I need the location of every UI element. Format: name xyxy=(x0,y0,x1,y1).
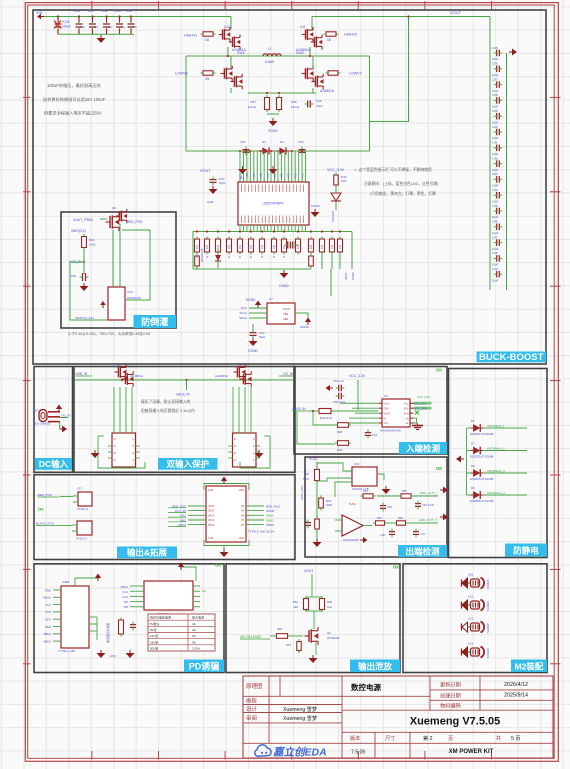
svg-text:<- 这个是蓝色指示灯 可以不焊接，不影响使用: <- 这个是蓝色指示灯 可以不焊接，不影响使用 xyxy=(354,167,432,172)
svg-text:10k: 10k xyxy=(238,244,242,249)
svg-text:2N7002W: 2N7002W xyxy=(327,636,340,640)
svg-text:R55: R55 xyxy=(402,489,407,493)
svg-text:D6: D6 xyxy=(471,419,475,423)
svg-text:XM POWER KIT: XM POWER KIT xyxy=(449,749,494,755)
svg-text:VBUS: VBUS xyxy=(208,525,215,527)
svg-text:10k: 10k xyxy=(195,244,199,249)
svg-text:VCC_3.3V: VCC_3.3V xyxy=(327,168,345,172)
svg-text:2026/4/12: 2026/4/12 xyxy=(504,682,528,688)
svg-text:0Ω: 0Ω xyxy=(205,38,210,42)
svg-text:尺寸: 尺寸 xyxy=(385,734,395,742)
svg-text:审阅: 审阅 xyxy=(246,714,257,722)
svg-text:R: R xyxy=(206,256,208,259)
svg-text:C70: C70 xyxy=(420,532,425,536)
svg-text:AO4801A: AO4801A xyxy=(130,374,143,378)
svg-text:VOUT: VOUT xyxy=(450,10,462,15)
svg-text:C66: C66 xyxy=(387,505,392,509)
svg-text:SW1: SW1 xyxy=(237,51,245,55)
svg-text:防倒灌: 防倒灌 xyxy=(141,316,168,327)
svg-text:输出&拓展: 输出&拓展 xyxy=(127,548,168,558)
svg-text:OK: OK xyxy=(436,368,442,373)
svg-text:SW2: SW2 xyxy=(296,51,304,55)
svg-text:15V定: 15V定 xyxy=(150,639,158,644)
svg-text:VB: VB xyxy=(241,520,245,522)
svg-text:5mΩ: 5mΩ xyxy=(303,477,309,481)
svg-text:C31: C31 xyxy=(88,9,94,13)
svg-text:10uF: 10uF xyxy=(492,231,499,235)
svg-text:输出泄放: 输出泄放 xyxy=(358,661,393,671)
svg-text:ANTENNA_4: ANTENNA_4 xyxy=(487,491,505,495)
svg-text:G: G xyxy=(253,439,255,441)
svg-text:3.25A: 3.25A xyxy=(192,646,200,650)
svg-text:10k: 10k xyxy=(309,244,313,249)
svg-text:U11: U11 xyxy=(300,25,306,29)
svg-text:10uF: 10uF xyxy=(492,215,499,219)
svg-text:G: G xyxy=(132,446,134,448)
svg-text:3A: 3A xyxy=(192,628,196,632)
svg-text:R44 2mΩ: R44 2mΩ xyxy=(320,416,332,420)
svg-text:R45: R45 xyxy=(337,448,343,452)
svg-text:10uF: 10uF xyxy=(492,136,499,140)
svg-text:VER: VER xyxy=(283,317,288,321)
svg-text:U20: U20 xyxy=(468,573,474,577)
svg-text:2025/9/14: 2025/9/14 xyxy=(504,693,528,699)
svg-text:U21: U21 xyxy=(468,595,474,599)
svg-text:LOWV2: LOWV2 xyxy=(349,72,362,76)
svg-text:HIGHV1: HIGHV1 xyxy=(184,34,197,38)
svg-text:IN: IN xyxy=(114,439,117,441)
svg-text:画板: 画板 xyxy=(246,697,258,705)
svg-text:TYPE-C 16P QC24: TYPE-C 16P QC24 xyxy=(248,530,274,534)
svg-text:R: R xyxy=(239,256,241,259)
svg-text:入端检测: 入端检测 xyxy=(405,443,441,453)
svg-text:IN: IN xyxy=(234,446,237,448)
svg-text:GND: GND xyxy=(208,538,213,540)
svg-text:VCC: VCC xyxy=(253,173,256,178)
svg-text:R37: R37 xyxy=(250,100,256,104)
svg-text:物料编码: 物料编码 xyxy=(440,702,461,710)
svg-text:10uF: 10uF xyxy=(492,105,499,109)
svg-text:C42: C42 xyxy=(492,156,498,160)
svg-text:20V定: 20V定 xyxy=(150,645,158,650)
svg-text:SDA: SDA xyxy=(404,407,409,410)
svg-text:C30: C30 xyxy=(74,9,80,13)
svg-text:CC1: CC1 xyxy=(122,590,128,594)
svg-text:R65: R65 xyxy=(277,627,283,631)
svg-text:R49: R49 xyxy=(304,472,310,476)
svg-text:出端检测: 出端检测 xyxy=(405,546,440,556)
svg-text:C34: C34 xyxy=(126,9,132,13)
svg-text:56pF: 56pF xyxy=(219,181,226,185)
svg-text:C33: C33 xyxy=(115,9,121,13)
svg-text:10uF: 10uF xyxy=(492,73,499,77)
svg-text:C53: C53 xyxy=(240,140,246,144)
svg-text:VBA: VBA xyxy=(283,312,288,316)
svg-text:10uF: 10uF xyxy=(492,152,499,156)
svg-text:30kΩ: 30kΩ xyxy=(326,503,332,507)
svg-text:DM: DM xyxy=(124,605,129,609)
svg-text:GND: GND xyxy=(384,407,390,410)
svg-text:USB1: USB1 xyxy=(62,580,70,584)
svg-text:10uF: 10uF xyxy=(492,247,499,251)
svg-text:SCREW: SCREW xyxy=(486,648,490,658)
svg-text:0Ω: 0Ω xyxy=(205,77,210,81)
svg-text:VCC: VCC xyxy=(274,173,277,178)
svg-text:C61: C61 xyxy=(372,433,378,437)
svg-text:VCC: VCC xyxy=(267,173,270,178)
svg-text:U23: U23 xyxy=(468,642,474,646)
svg-text:10uF: 10uF xyxy=(492,168,499,172)
svg-text:ADC_SDA: ADC_SDA xyxy=(414,406,427,410)
svg-text:PG: PG xyxy=(202,589,206,593)
svg-text:47pF: 47pF xyxy=(316,104,323,108)
svg-text:VBUS_IN: VBUS_IN xyxy=(292,407,306,411)
svg-text:VOUT: VOUT xyxy=(309,457,318,461)
svg-text:10k: 10k xyxy=(272,244,276,249)
svg-text:3A: 3A xyxy=(192,640,196,644)
svg-text:DM1: DM1 xyxy=(45,625,51,629)
svg-text:VOUT: VOUT xyxy=(344,272,348,280)
svg-text:G: G xyxy=(132,439,134,441)
svg-text:SWITCH_INH: SWITCH_INH xyxy=(75,316,94,320)
svg-text:10k: 10k xyxy=(227,244,231,249)
svg-text:G: G xyxy=(253,446,255,448)
svg-text:4A: 4A xyxy=(192,622,196,626)
svg-text:VIN-: VIN- xyxy=(384,422,389,425)
svg-text:6.8uH: 6.8uH xyxy=(265,60,275,64)
svg-text:DP: DP xyxy=(124,600,128,604)
svg-text:VCC: VCC xyxy=(241,306,248,310)
svg-text:U4: U4 xyxy=(384,394,388,398)
svg-text:C40: C40 xyxy=(492,125,498,129)
svg-text:BLACK_POS: BLACK_POS xyxy=(36,522,54,526)
svg-text:RED_POS: RED_POS xyxy=(38,493,52,497)
svg-text:设计: 设计 xyxy=(246,705,258,713)
svg-text:C47: C47 xyxy=(492,235,498,239)
svg-text:第 2: 第 2 xyxy=(423,734,433,742)
svg-text:U16: U16 xyxy=(354,462,360,466)
svg-text:10uF: 10uF xyxy=(492,184,499,188)
svg-text:SCL: SCL xyxy=(404,403,409,406)
svg-text:共: 共 xyxy=(496,734,501,742)
svg-text:ANTENNA_3: ANTENNA_3 xyxy=(487,469,505,473)
svg-text:G: G xyxy=(132,460,134,462)
svg-text:R: R xyxy=(217,256,219,259)
svg-text:SBU2: SBU2 xyxy=(266,518,274,522)
svg-text:C45: C45 xyxy=(492,204,498,208)
svg-text:VBUS: VBUS xyxy=(208,520,215,522)
svg-text:SCREW: SCREW xyxy=(486,579,490,589)
svg-text:LM5176PWPR: LM5176PWPR xyxy=(262,202,284,206)
svg-text:9V定: 9V定 xyxy=(150,627,157,632)
svg-text:IN-: IN- xyxy=(384,417,387,420)
svg-text:U3: U3 xyxy=(238,363,242,367)
svg-text:100uF的电压，最好耐高压的: 100uF的电压，最好耐高压的 xyxy=(47,82,101,89)
svg-text:VCC: VCC xyxy=(260,173,263,178)
svg-text:C36: C36 xyxy=(316,99,322,103)
svg-text:10u: 10u xyxy=(121,25,126,29)
svg-text:小于0.3A(1Ω-3Ω)，75Ω=75V，大功率低0.45: 小于0.3A(1Ω-3Ω)，75Ω=75V，大功率低0.45至0.6A xyxy=(68,331,151,336)
svg-text:D7: D7 xyxy=(471,442,475,446)
svg-text:页: 页 xyxy=(448,735,453,742)
svg-text:C41: C41 xyxy=(492,141,498,145)
svg-text:SDA2: SDA2 xyxy=(239,316,247,320)
svg-text:XT1: XT1 xyxy=(77,487,83,491)
svg-text:VBUS: VBUS xyxy=(120,585,128,589)
svg-text:10uF: 10uF xyxy=(492,263,499,267)
svg-text:GND: GND xyxy=(110,654,116,658)
svg-text:GND: GND xyxy=(239,490,244,492)
svg-text:10k: 10k xyxy=(249,244,253,249)
svg-text:VSNS: VSNS xyxy=(351,272,355,280)
svg-text:更新日期: 更新日期 xyxy=(440,681,461,689)
svg-text:10u: 10u xyxy=(133,25,138,29)
svg-text:VCC: VCC xyxy=(288,173,291,178)
svg-text:ESD5Z5.0T1G/MB: ESD5Z5.0T1G/MB xyxy=(470,477,493,481)
svg-text:GND: GND xyxy=(45,588,51,592)
svg-text:VBAT(3.3): VBAT(3.3) xyxy=(71,229,86,233)
svg-text:EGND: EGND xyxy=(268,129,278,133)
svg-text:D9: D9 xyxy=(471,486,475,490)
svg-text:ADC_SCL: ADC_SCL xyxy=(414,401,427,405)
svg-text:10u: 10u xyxy=(94,25,99,29)
svg-text:10kΩ: 10kΩ xyxy=(89,243,96,247)
svg-text:SBU1: SBU1 xyxy=(266,514,274,518)
svg-text:R48: R48 xyxy=(337,430,343,434)
svg-text:OK: OK xyxy=(38,507,44,512)
svg-text:嘉立创EDA: 嘉立创EDA xyxy=(272,746,327,759)
svg-text:VBUS: VBUS xyxy=(384,412,391,415)
svg-text:R50: R50 xyxy=(326,499,332,503)
svg-text:VOUT: VOUT xyxy=(304,569,313,573)
svg-text:VOUT: VOUT xyxy=(283,307,291,311)
svg-text:SBU2: SBU2 xyxy=(43,639,51,643)
svg-text:10u: 10u xyxy=(81,25,86,29)
svg-text:OK: OK xyxy=(436,466,442,471)
svg-text:协议与电压电流: 协议与电压电流 xyxy=(150,615,171,620)
svg-text:10uF: 10uF xyxy=(492,278,499,282)
svg-text:C38: C38 xyxy=(492,93,498,97)
svg-text:U10: U10 xyxy=(224,25,230,29)
svg-text:原理图: 原理图 xyxy=(246,682,263,690)
svg-text:INA260AIDGKR: INA260AIDGKR xyxy=(380,429,401,433)
svg-text:C68: C68 xyxy=(380,533,385,537)
svg-text:DGND: DGND xyxy=(246,298,256,302)
svg-text:C35: C35 xyxy=(492,46,498,50)
svg-text:VB: VB xyxy=(241,511,245,513)
svg-text:1kΩ: 1kΩ xyxy=(327,605,332,609)
svg-text:10uF: 10uF xyxy=(492,57,499,61)
svg-text:1kΩ: 1kΩ xyxy=(293,605,298,609)
svg-text:Q4: Q4 xyxy=(327,631,331,635)
svg-text:DC-005WZD: DC-005WZD xyxy=(35,422,50,426)
svg-text:接反了没事，防止反接输入的: 接反了没事，防止反接输入的 xyxy=(141,399,191,404)
svg-text:LOWV1: LOWV1 xyxy=(175,72,188,76)
svg-text:VCC: VCC xyxy=(295,173,298,178)
svg-text:R63: R63 xyxy=(327,600,333,604)
svg-text:10uF: 10uF xyxy=(492,89,499,93)
svg-text:(只用输出，黑灰白，灯罩，黑色，灯罩: (只用输出，黑灰白，灯罩，黑色，灯罩 xyxy=(370,191,436,196)
svg-text:10k: 10k xyxy=(205,244,209,249)
svg-text:版本: 版本 xyxy=(350,734,360,742)
svg-text:*C26: *C26 xyxy=(62,20,70,24)
svg-text:但要求全程输入电压不超过60V: 但要求全程输入电压不超过60V xyxy=(44,110,102,117)
svg-text:R: R xyxy=(228,256,230,259)
svg-text:D4: D4 xyxy=(280,140,284,144)
svg-text:R: R xyxy=(196,256,198,259)
svg-text:IN: IN xyxy=(114,446,117,448)
svg-text:R53: R53 xyxy=(398,516,403,520)
svg-text:ANTENNA_1: ANTENNA_1 xyxy=(487,424,505,428)
svg-text:XT30U-1: XT30U-1 xyxy=(77,507,89,511)
svg-text:HIGHV2: HIGHV2 xyxy=(344,33,357,37)
svg-text:XT30U-2: XT30U-2 xyxy=(76,537,88,541)
svg-text:10mΩ: 10mΩ xyxy=(291,105,300,109)
svg-text:5U5A: 5U5A xyxy=(349,502,356,506)
svg-text:R52: R52 xyxy=(377,516,382,520)
svg-text:SCL2: SCL2 xyxy=(239,311,247,315)
svg-text:IN: IN xyxy=(234,453,237,455)
svg-text:VBUS: VBUS xyxy=(208,511,215,513)
svg-text:5V默认: 5V默认 xyxy=(150,621,160,626)
svg-text:R38: R38 xyxy=(291,100,297,104)
svg-text:IN: IN xyxy=(114,453,117,455)
svg-text:C59 1uF: C59 1uF xyxy=(333,379,344,383)
svg-text:10k: 10k xyxy=(216,244,220,249)
svg-text:VIN: VIN xyxy=(36,11,43,15)
svg-text:C43: C43 xyxy=(492,172,498,176)
svg-text:R: R xyxy=(250,256,252,259)
svg-text:C66: C66 xyxy=(71,274,77,278)
svg-text:PD诱骗: PD诱骗 xyxy=(189,660,220,671)
svg-text:DC_IN: DC_IN xyxy=(283,372,293,376)
svg-text:100uF: 100uF xyxy=(62,25,71,29)
svg-text:C32: C32 xyxy=(102,9,108,13)
svg-text:RED_POS: RED_POS xyxy=(127,220,142,224)
svg-text:12V定: 12V定 xyxy=(150,633,158,638)
svg-text:AO4801A: AO4801A xyxy=(215,374,228,378)
svg-text:1kΩ: 1kΩ xyxy=(341,179,347,183)
svg-text:Xuemeng V7.5.05: Xuemeng V7.5.05 xyxy=(410,716,501,728)
svg-text:R54: R54 xyxy=(363,489,368,493)
svg-text:VCC: VCC xyxy=(301,173,304,178)
svg-text:VB: VB xyxy=(241,525,245,527)
svg-text:DGND: DGND xyxy=(279,284,289,288)
svg-text:这样更好的焊接可以用16V 100uF: 这样更好的焊接可以用16V 100uF xyxy=(43,96,106,103)
svg-text:创建日期: 创建日期 xyxy=(440,692,461,700)
svg-text:GND: GND xyxy=(207,200,215,204)
svg-text:DGND: DGND xyxy=(300,325,310,329)
svg-text:10u: 10u xyxy=(108,25,113,29)
svg-text:D3: D3 xyxy=(262,140,266,144)
svg-text:56pF: 56pF xyxy=(259,335,266,339)
svg-text:Xuemeng 雪梦: Xuemeng 雪梦 xyxy=(283,706,318,713)
svg-text:R: R xyxy=(273,256,275,259)
svg-text:IN: IN xyxy=(234,439,237,441)
svg-text:C44: C44 xyxy=(492,188,498,192)
svg-text:USB_IN: USB_IN xyxy=(76,372,88,376)
svg-text:C67 2.2nF: C67 2.2nF xyxy=(422,503,435,507)
svg-text:3A: 3A xyxy=(192,634,196,638)
svg-text:10k: 10k xyxy=(260,244,264,249)
svg-text:OK: OK xyxy=(215,563,221,568)
svg-text:ADC_OUT_I: ADC_OUT_I xyxy=(420,491,437,495)
svg-text:VBUS: VBUS xyxy=(208,515,215,517)
svg-text:OK: OK xyxy=(393,565,399,570)
svg-text:10uF: 10uF xyxy=(492,120,499,124)
svg-text:MMSZ5248: MMSZ5248 xyxy=(200,248,204,262)
svg-text:VOUT: VOUT xyxy=(200,169,211,173)
svg-text:但被双输入电压要相近 0.3v以内: 但被双输入电压要相近 0.3v以内 xyxy=(141,408,195,413)
svg-text:G: G xyxy=(253,460,255,462)
svg-text:注意朝向：(上标，蓝色白色LED，红色引脚): 注意朝向：(上标，蓝色白色LED，红色引脚) xyxy=(364,181,439,186)
svg-text:0Ω: 0Ω xyxy=(327,38,332,42)
svg-text:10k: 10k xyxy=(330,244,334,249)
svg-text:RED_POS: RED_POS xyxy=(266,504,280,508)
svg-text:VOUT_PB05: VOUT_PB05 xyxy=(73,218,93,222)
svg-text:VB: VB xyxy=(241,515,245,517)
svg-text:VCC_3.3V: VCC_3.3V xyxy=(349,374,366,378)
svg-text:10k: 10k xyxy=(320,244,324,249)
svg-text:R: R xyxy=(283,256,285,259)
svg-text:BUCK-BOOST: BUCK-BOOST xyxy=(479,352,544,363)
svg-text:VCC: VCC xyxy=(246,173,249,178)
svg-text:R64: R64 xyxy=(286,643,291,647)
svg-text:DC输入: DC输入 xyxy=(39,459,69,469)
svg-text:CC1: CC1 xyxy=(45,603,51,607)
svg-text:最大电流: 最大电流 xyxy=(192,615,204,620)
svg-text:10mΩ: 10mΩ xyxy=(248,105,257,109)
svg-text:双输入保护: 双输入保护 xyxy=(166,459,209,469)
svg-text:VBUS: VBUS xyxy=(208,506,215,508)
svg-text:IN: IN xyxy=(114,460,117,462)
svg-text:DGND: DGND xyxy=(311,204,321,208)
svg-text:GND: GND xyxy=(208,490,213,492)
svg-text:ESD5Z5.0T1G/MB: ESD5Z5.0T1G/MB xyxy=(470,432,493,436)
svg-text:VBUS: VBUS xyxy=(266,523,274,527)
svg-text:SCREW: SCREW xyxy=(486,623,490,633)
svg-text:LMV321M5X: LMV321M5X xyxy=(343,538,359,542)
svg-text:DGND: DGND xyxy=(248,349,258,353)
svg-text:VOLT_FWL: VOLT_FWL xyxy=(300,485,304,500)
svg-text:DC_IN: DC_IN xyxy=(62,414,71,418)
svg-text:U2: U2 xyxy=(117,363,121,367)
svg-text:IN: IN xyxy=(234,460,237,462)
svg-text:U7: U7 xyxy=(269,297,273,301)
svg-text:ESD5Z5.0T1G/MB: ESD5Z5.0T1G/MB xyxy=(470,499,493,503)
svg-text:G: G xyxy=(132,453,134,455)
svg-text:M2装配: M2装配 xyxy=(515,661,544,671)
svg-text:SBU1: SBU1 xyxy=(43,632,51,636)
svg-text:U1: U1 xyxy=(240,176,244,180)
svg-text:ADC_OUT_V: ADC_OUT_V xyxy=(419,518,437,522)
svg-text:MAX40200: MAX40200 xyxy=(127,296,141,300)
svg-text:DP1: DP1 xyxy=(45,618,51,622)
svg-text:GND: GND xyxy=(239,538,244,540)
svg-text:Xuemeng 雪梦: Xuemeng 雪梦 xyxy=(283,715,318,722)
svg-text:U22: U22 xyxy=(468,617,474,621)
svg-text:C36: C36 xyxy=(492,62,498,66)
svg-text:AO4801A: AO4801A xyxy=(320,89,335,93)
svg-text:VB: VB xyxy=(241,506,245,508)
svg-text:5 页: 5 页 xyxy=(511,735,521,742)
svg-text:数控电源: 数控电源 xyxy=(351,682,381,692)
svg-text:10k: 10k xyxy=(338,244,342,249)
svg-text:电源指示灯电阻: 电源指示灯电阻 xyxy=(105,623,110,643)
svg-text:TYPE-C-16P: TYPE-C-16P xyxy=(58,649,75,653)
svg-text:PGOOD: PGOOD xyxy=(331,210,335,222)
svg-text:G: G xyxy=(253,453,255,455)
